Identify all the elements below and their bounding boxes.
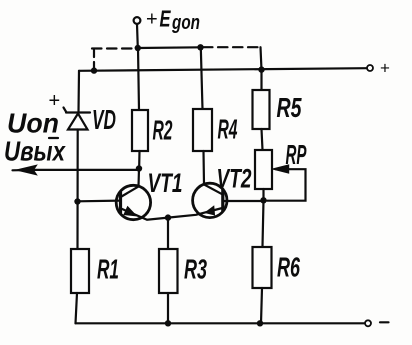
svg-text:R1: R1: [97, 254, 119, 285]
wire R5 to RP: [262, 129, 263, 150]
label minus of Uop: [49, 137, 58, 139]
diode VD zener: [64, 108, 91, 130]
node VT1 base junction: [74, 198, 80, 204]
svg-text:VD: VD: [92, 104, 116, 135]
wire output line: [13, 169, 138, 172]
node RP-R6-VT2base junction: [260, 197, 266, 203]
wire R3 bottom lead: [167, 293, 169, 323]
node Edop line on dashed rail: [135, 45, 141, 51]
node dashed-rail to main rail junction: [91, 67, 97, 73]
svg-text:R6: R6: [277, 252, 300, 283]
svg-text:VT2: VT2: [217, 164, 252, 194]
arrow RP wiper: [273, 165, 289, 173]
terminal +Edop: [134, 17, 141, 24]
wire R4 branch upper: [201, 47, 203, 109]
wire RP bottom lead: [262, 189, 264, 199]
wire VT2 base: [223, 200, 261, 202]
terminal - right bottom: [365, 320, 371, 326]
svg-text:+: +: [380, 59, 390, 78]
wire auxiliary rail middle segment: [138, 46, 201, 49]
node R3 bottom: [165, 320, 171, 326]
wire diode to base junction: [76, 130, 78, 250]
wire R2 bottom lead: [138, 151, 141, 166]
wire VT1 collector: [122, 169, 140, 197]
resistor R4: [193, 109, 212, 151]
resistor R3: [159, 249, 178, 293]
node R4 line on dashed rail: [197, 44, 203, 50]
svg-text:E: E: [160, 6, 171, 32]
wire bottom rail: [76, 322, 365, 324]
wire Edop terminal drop: [136, 24, 139, 48]
transistor VT1: [116, 185, 168, 219]
svg-text:VT1: VT1: [148, 168, 183, 198]
node VT1 collector junction: [136, 165, 142, 171]
wire dashed auxiliary rail: [92, 47, 258, 48]
resistor R6: [253, 247, 272, 288]
wire R2 branch upper (Edop junction down to R2): [138, 48, 139, 110]
svg-text:R3: R3: [184, 254, 207, 285]
arrow output left: [18, 166, 37, 175]
terminal + right: [367, 65, 373, 71]
svg-text:Uвых: Uвых: [4, 136, 66, 167]
label +Edop: [146, 6, 200, 35]
transistor VT2: [168, 183, 227, 217]
label minus bottom right: [380, 321, 389, 323]
wire left vertical (rail corner down to diode): [77, 71, 80, 112]
wire emitters to R3: [167, 218, 169, 249]
wire VT1 base: [78, 200, 121, 203]
wire R6 top lead: [263, 200, 264, 246]
svg-text:gon: gon: [171, 12, 200, 34]
svg-text:RP: RP: [286, 139, 307, 170]
wire RP wiper return: [267, 169, 306, 201]
wire VT2 collector: [204, 151, 223, 194]
node R6 bottom: [257, 320, 263, 326]
svg-text:R2: R2: [153, 115, 173, 146]
svg-text:R5: R5: [277, 92, 302, 123]
wire R6 bottom lead: [261, 288, 262, 323]
resistor R1: [71, 249, 89, 293]
wire R1 bottom lead: [76, 293, 78, 323]
resistor R2: [132, 110, 148, 151]
node common emitters: [165, 214, 171, 220]
resistor R5: [253, 90, 270, 129]
node R5 top on main rail: [258, 66, 264, 72]
svg-text:R4: R4: [218, 114, 238, 145]
wire dashed rail right corner drop: [261, 47, 262, 70]
wire R5 top lead: [260, 70, 262, 90]
wire top solid rail: [79, 68, 367, 71]
wire dashed left drop: [93, 50, 95, 69]
potentiometer RP: [255, 150, 272, 189]
svg-text:+: +: [146, 9, 158, 31]
svg-text:Uon: Uon: [7, 108, 59, 139]
